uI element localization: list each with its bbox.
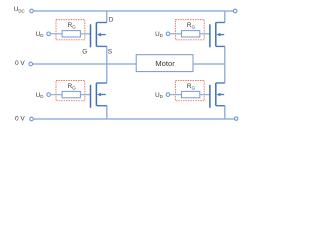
wire U_D to RG1 [51, 33, 63, 35]
svg-text:UD: UD [155, 92, 164, 99]
terminal U_D (top-left) [47, 32, 51, 36]
svg-text:0 V: 0 V [15, 60, 25, 67]
wire U_DC rail [34, 10, 236, 12]
terminal 0V mid [29, 62, 33, 66]
terminal U_DC right [233, 9, 237, 13]
transistor T1 (top-left MOSFET) [91, 23, 107, 48]
svg-text:Motor: Motor [155, 59, 175, 68]
wire RG2 to gate T2 [200, 33, 210, 35]
wire motor to right leg [193, 63, 225, 65]
red dashed box (driver 3) [56, 81, 85, 101]
wire U_D to RG2 [170, 33, 182, 35]
terminal U_D (bottom-left) [47, 93, 51, 97]
wire 0V bottom rail [34, 118, 237, 120]
wire 0V mid to motor [33, 63, 136, 65]
terminal 0V bottom right [235, 117, 238, 120]
red dashed box (driver 2) [175, 20, 204, 40]
svg-text:RG: RG [68, 22, 77, 29]
svg-text:UDC: UDC [14, 6, 25, 13]
svg-text:0 V: 0 V [15, 115, 25, 122]
wire RG1 to gate T1 [80, 33, 90, 35]
terminal U_D (bottom-right) [166, 93, 170, 97]
red dashed box (driver 1) [56, 20, 85, 40]
svg-text:UD: UD [36, 31, 45, 38]
resistor RG1 [62, 31, 80, 37]
terminal U_D (top-right) [166, 32, 170, 36]
svg-text:RG: RG [187, 83, 196, 90]
wire right mid vertical [224, 46, 226, 83]
wire RG4 to gate T4 [200, 94, 210, 96]
resistor RG3 [62, 91, 80, 97]
svg-text:UD: UD [36, 92, 45, 99]
svg-text:G: G [82, 48, 87, 55]
svg-text:S: S [108, 48, 112, 55]
wire left drain vertical [106, 11, 108, 23]
wire left mid vertical [106, 46, 108, 83]
svg-text:RG: RG [187, 22, 196, 29]
svg-text:RG: RG [68, 83, 77, 90]
motor M1 [136, 55, 193, 72]
svg-text:D: D [109, 17, 114, 24]
transistor T2 (top-right MOSFET) [210, 23, 225, 48]
wire right source vertical [224, 106, 226, 119]
red dashed box (driver 4) [175, 81, 204, 101]
wire RG3 to gate T3 [80, 94, 90, 96]
wire right drain vertical [224, 11, 226, 23]
transistor T3 (bottom-left MOSFET) [91, 83, 107, 108]
svg-text:UD: UD [155, 31, 164, 38]
transistor T4 (bottom-right MOSFET) [210, 83, 225, 108]
wire U_D to RG4 [170, 94, 182, 96]
terminal 0V bottom [30, 117, 34, 121]
terminal U_DC [30, 9, 34, 13]
wire U_D to RG3 [51, 94, 63, 96]
wire left source vertical [106, 106, 108, 119]
resistor RG4 [182, 91, 200, 97]
resistor RG2 [182, 31, 200, 37]
